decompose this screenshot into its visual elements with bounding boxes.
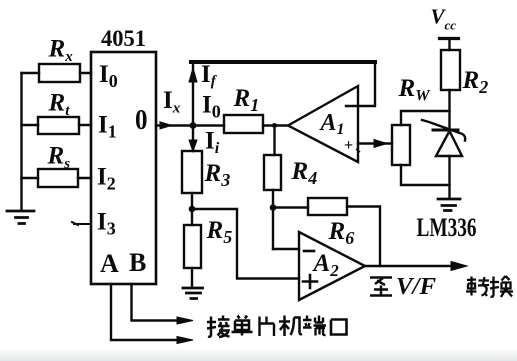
resistor R3 xyxy=(182,151,202,193)
svg-text:R3: R3 xyxy=(204,160,231,190)
zener LM336 triangle xyxy=(436,131,462,156)
hanzi 单 xyxy=(232,316,253,336)
hanzi 端 xyxy=(303,316,326,336)
arrow A to MCU xyxy=(177,337,193,344)
wire R1 to A1 xyxy=(263,124,288,126)
arrow into RW xyxy=(374,140,387,148)
hanzi 口 xyxy=(331,320,347,335)
op-amp A2 xyxy=(299,232,365,300)
hanzi 换 xyxy=(490,276,513,297)
resistor R6 xyxy=(308,198,347,215)
svg-text:A2: A2 xyxy=(312,250,340,280)
wire zener to ground xyxy=(448,156,450,198)
wire node down to R3 xyxy=(192,126,194,152)
RW bottom wire xyxy=(401,165,450,185)
svg-text:B: B xyxy=(129,248,146,277)
wire tap down to R4 xyxy=(273,126,275,156)
svg-text:Vcc: Vcc xyxy=(431,5,457,33)
hanzi 至 xyxy=(370,278,392,296)
svg-text:R5: R5 xyxy=(206,217,233,247)
svg-text:Ix: Ix xyxy=(163,87,181,117)
arrow to V/F xyxy=(451,262,467,271)
wire A1 plus to RW wiper xyxy=(358,142,392,144)
svg-text:V/F: V/F xyxy=(396,274,436,300)
wire row1 xyxy=(22,72,92,74)
svg-text:If: If xyxy=(201,61,218,90)
arrow Ix xyxy=(160,122,172,129)
resistor R2 xyxy=(441,50,460,90)
svg-text:R1: R1 xyxy=(233,85,260,115)
node R3/R5 junction xyxy=(189,206,196,213)
svg-text:LM336: LM336 xyxy=(417,213,477,242)
resistor R4 xyxy=(264,155,281,190)
svg-text:I0: I0 xyxy=(99,61,118,91)
pin I3 stub xyxy=(72,222,91,225)
4051 box U1 xyxy=(91,52,156,284)
wire 4051 out to node xyxy=(156,124,224,126)
svg-text:Rs: Rs xyxy=(47,143,71,173)
A2 minus sign xyxy=(304,250,314,253)
hanzi 接 xyxy=(207,316,230,338)
ground below R5 xyxy=(183,288,203,299)
node Ix junction xyxy=(190,122,197,129)
svg-text:4051: 4051 xyxy=(101,26,146,51)
A2 plus sign xyxy=(303,275,317,288)
potentiometer RW xyxy=(392,125,410,165)
hanzi 转 xyxy=(466,277,489,297)
hanzi 机 xyxy=(279,316,302,337)
resistor R1 xyxy=(224,115,263,133)
Vcc bar xyxy=(440,37,459,40)
resistor R5 xyxy=(184,225,201,268)
A2 output wire xyxy=(365,265,453,267)
svg-text:I3: I3 xyxy=(97,209,116,239)
ground left xyxy=(7,211,34,224)
svg-text:R6: R6 xyxy=(328,218,355,248)
svg-text:R2: R2 xyxy=(462,67,489,97)
svg-text:Ii: Ii xyxy=(205,128,220,158)
wire pin B down xyxy=(132,284,179,321)
svg-text:Rx: Rx xyxy=(48,36,74,66)
wire R4 to junction xyxy=(273,190,308,249)
wire R3 to R5 xyxy=(191,193,193,225)
wire R2 down xyxy=(448,90,450,130)
RW top wire xyxy=(401,111,450,125)
bottom gradient strip xyxy=(0,348,517,361)
left ground bus wire xyxy=(20,73,22,210)
wire Vcc to R2 xyxy=(448,39,450,51)
svg-text:0: 0 xyxy=(135,105,148,136)
svg-text:+: + xyxy=(344,137,353,154)
svg-text:A1: A1 xyxy=(319,110,345,138)
wire row3 xyxy=(22,177,92,179)
svg-text:A: A xyxy=(100,249,119,278)
A1 plus stray tick xyxy=(356,149,360,152)
op-amp A1 xyxy=(288,86,358,162)
arrow Ii down xyxy=(189,140,197,152)
wire row2 xyxy=(22,124,92,126)
resistor Rx xyxy=(39,64,80,82)
ground below LM336 xyxy=(438,199,460,211)
svg-text:I0: I0 xyxy=(202,92,221,122)
wire junction to A2 plus input xyxy=(192,209,299,279)
feedback top wire xyxy=(191,60,375,64)
svg-text:RW: RW xyxy=(398,75,432,105)
arrow B to MCU xyxy=(177,317,193,324)
node R4/R6 junction xyxy=(270,204,277,211)
resistor Rs xyxy=(38,169,78,187)
zener adjust arrow xyxy=(422,120,465,141)
wire R5 to ground xyxy=(191,268,193,287)
wire R6 to A2 output xyxy=(347,207,380,267)
svg-text:I1: I1 xyxy=(98,112,117,142)
svg-text:Rt: Rt xyxy=(48,90,71,120)
svg-text:I2: I2 xyxy=(97,164,116,194)
svg-text:R4: R4 xyxy=(291,158,318,188)
wire node up to feedback xyxy=(192,62,194,126)
wire pin A down xyxy=(111,284,178,340)
resistor Rt xyxy=(38,117,79,134)
node R4 tap xyxy=(272,123,277,128)
arrow If up xyxy=(189,68,197,82)
A1 inverting stub xyxy=(346,62,375,106)
zener LM336 cathode bar xyxy=(433,129,458,132)
hanzi 片 xyxy=(260,317,275,337)
wire down to A2 minus input xyxy=(273,248,299,250)
